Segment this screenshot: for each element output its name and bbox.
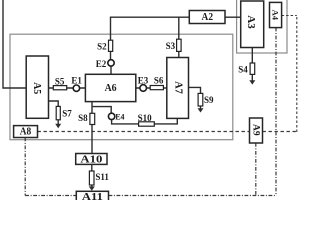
svg-text:E4: E4 <box>115 113 124 122</box>
svg-text:A10: A10 <box>80 154 102 165</box>
svg-text:S9: S9 <box>204 95 214 105</box>
svg-text:S4: S4 <box>238 64 248 74</box>
svg-text:S6: S6 <box>154 76 164 86</box>
svg-text:S8: S8 <box>78 113 88 123</box>
svg-text:S5: S5 <box>55 76 65 86</box>
svg-text:A3: A3 <box>245 15 257 29</box>
svg-text:A7: A7 <box>172 81 183 94</box>
svg-text:E2: E2 <box>96 59 107 69</box>
svg-text:S3: S3 <box>166 41 176 51</box>
svg-text:A8: A8 <box>20 127 32 138</box>
svg-text:A2: A2 <box>202 11 214 23</box>
svg-text:A9: A9 <box>250 124 260 136</box>
svg-text:E1: E1 <box>71 76 82 86</box>
svg-text:S2: S2 <box>97 42 107 52</box>
svg-text:A5: A5 <box>31 82 42 94</box>
svg-text:S7: S7 <box>62 108 72 118</box>
svg-text:S11: S11 <box>95 172 109 182</box>
svg-text:A6: A6 <box>105 82 117 94</box>
svg-text:S10: S10 <box>138 113 153 123</box>
svg-text:E3: E3 <box>138 75 149 85</box>
svg-text:A11: A11 <box>82 192 103 200</box>
svg-text:A4: A4 <box>271 10 281 21</box>
